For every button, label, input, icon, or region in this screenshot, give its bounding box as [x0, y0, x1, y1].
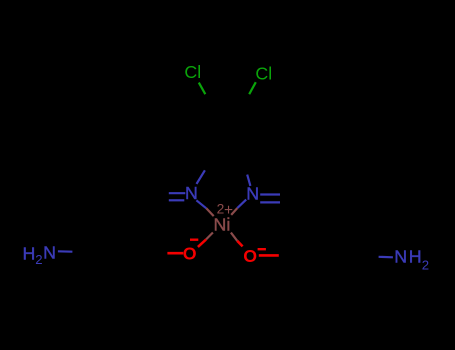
bond Ni-O right (maroon half) [231, 233, 237, 241]
svg-text:2: 2 [35, 252, 42, 267]
charge minus left [190, 238, 198, 240]
bond N-C(ring) left (blue half) [197, 170, 205, 184]
charge minus right [258, 248, 266, 250]
svg-text:H: H [409, 247, 422, 267]
svg-text:+: + [224, 202, 233, 219]
bond C-Cl right (green half) [249, 82, 256, 94]
bond N-C(ring) left amino (blue half) [58, 250, 73, 253]
bond O-Ni left (red half) [198, 239, 206, 247]
bond C-Cl left (green half) [199, 83, 206, 95]
bond Ni-N left (maroon half) [206, 208, 213, 216]
benzene ring right (aminophenolate) [297, 226, 364, 285]
bond N-C(ring) right amino (blue half) [379, 256, 393, 259]
svg-text:Cl: Cl [184, 62, 201, 82]
double bond C=N right main line [260, 193, 280, 195]
bond Ni-N right (maroon half) [231, 208, 237, 215]
svg-text:H: H [23, 243, 36, 263]
svg-text:O: O [243, 246, 257, 266]
benzene ring top (dichlorophenylene) [195, 105, 259, 160]
bond N-C(ring) right (blue half) [247, 175, 250, 186]
bond N-Ni right (blue half) [237, 200, 246, 209]
double bond C=N left main line [169, 192, 186, 194]
svg-text:N: N [394, 247, 407, 267]
svg-text:O: O [183, 244, 197, 264]
bond Ni-O left (maroon half) [206, 233, 213, 240]
invisible carbon skeleton (black on black, as in original) [87, 105, 364, 286]
svg-text:N: N [185, 183, 198, 203]
bond N-Ni left (blue half) [196, 200, 206, 208]
CH= carbon links [136, 197, 153, 224]
svg-text:Cl: Cl [255, 63, 272, 83]
svg-text:N: N [43, 243, 56, 263]
svg-text:N: N [246, 183, 259, 203]
bond O-Ni right (red half) [237, 241, 242, 247]
bond O-C(ring) right (red half) [259, 254, 279, 257]
bond O-C(ring) left (red half) [167, 252, 183, 255]
double bond C=N right second line [260, 201, 280, 203]
svg-text:2: 2 [422, 258, 429, 273]
double bond C=N left second line [169, 199, 185, 201]
benzene ring left (aminophenolate) [87, 224, 152, 281]
